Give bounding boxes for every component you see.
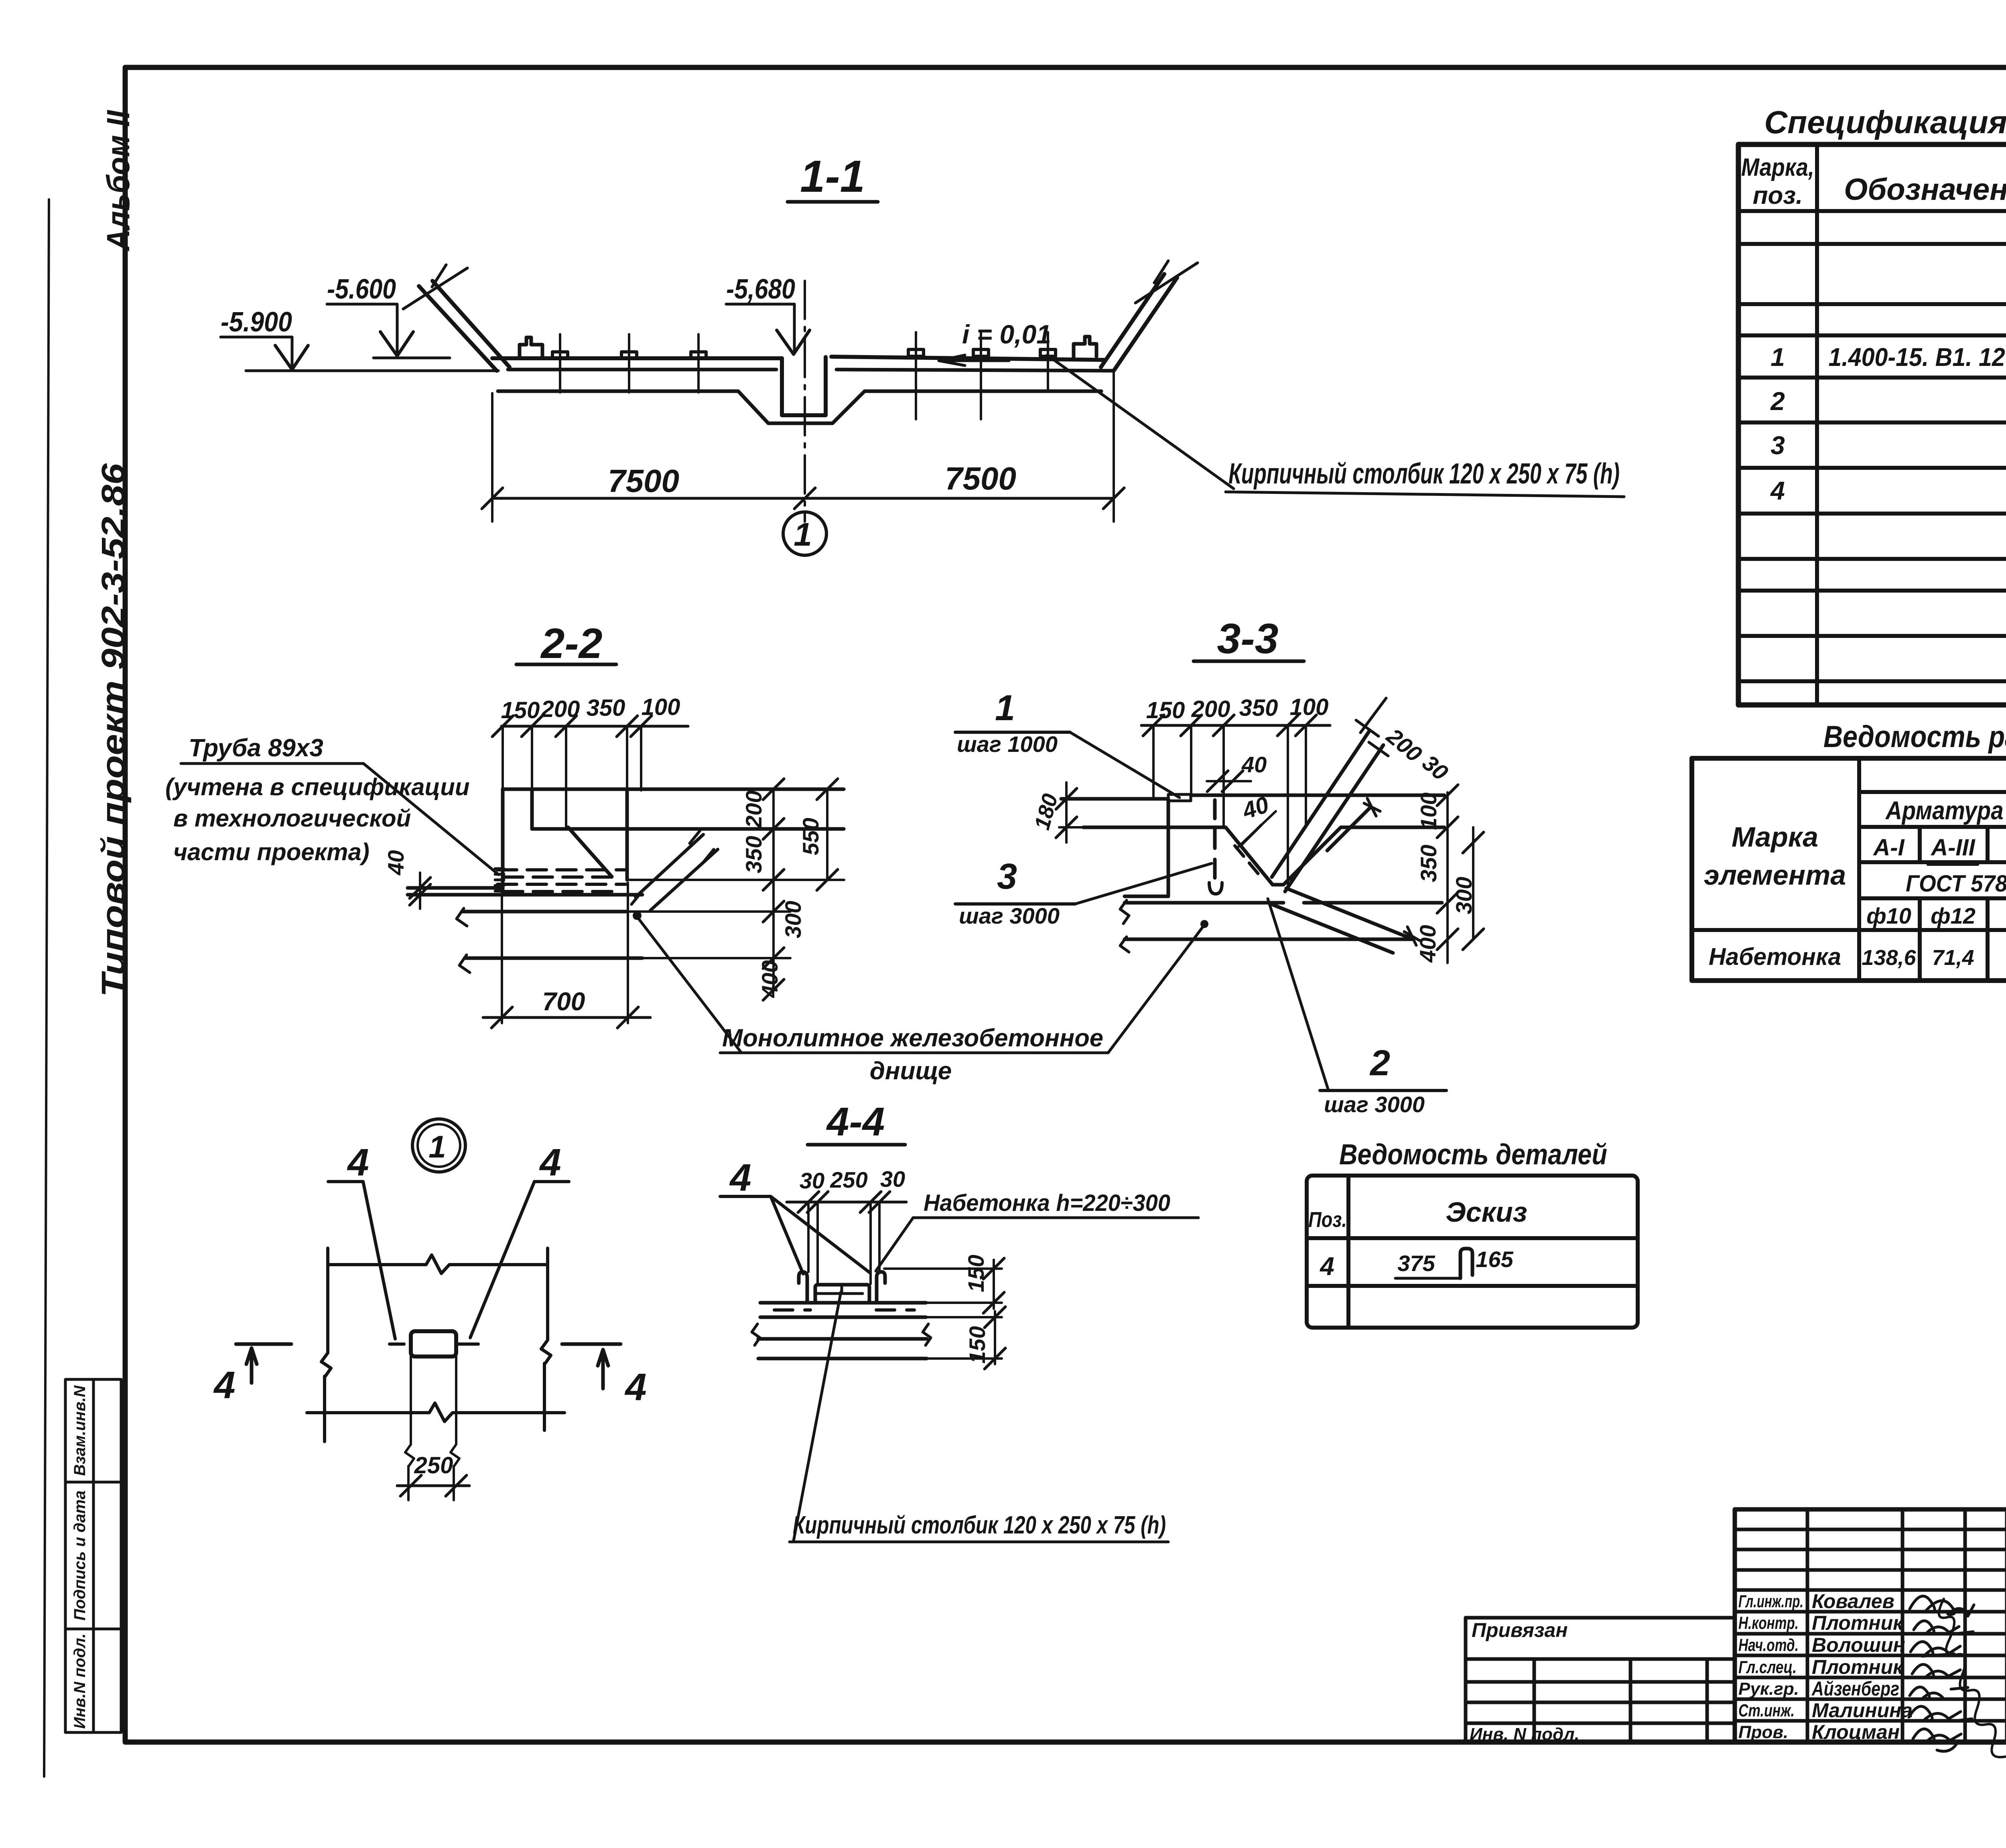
- svg-text:Эскиз: Эскиз: [1446, 1196, 1527, 1228]
- svg-text:1-1: 1-1: [800, 151, 865, 201]
- svg-text:Ведомость деталей: Ведомость деталей: [1339, 1139, 1607, 1171]
- svg-text:части проекта): части проекта): [173, 839, 370, 865]
- svg-text:100: 100: [1416, 792, 1441, 830]
- svg-text:Гл.слец.: Гл.слец.: [1738, 1657, 1797, 1677]
- svg-text:Поз.: Поз.: [1308, 1208, 1347, 1232]
- svg-text:138,6: 138,6: [1862, 946, 1916, 970]
- svg-text:Айзенберг: Айзенберг: [1811, 1677, 1899, 1700]
- svg-text:4-4: 4-4: [826, 1099, 885, 1144]
- svg-text:4: 4: [213, 1364, 235, 1407]
- svg-text:40: 40: [383, 850, 408, 875]
- svg-text:Взам.инв.N: Взам.инв.N: [71, 1385, 89, 1476]
- svg-text:(учтена в спецификации: (учтена в спецификации: [165, 774, 470, 800]
- svg-text:Спецификация к схеме располо: Спецификация к схеме расположения опор: [1764, 104, 2006, 140]
- svg-text:375: 375: [1397, 1251, 1435, 1276]
- svg-text:Пров.: Пров.: [1738, 1722, 1788, 1742]
- svg-text:4: 4: [624, 1366, 646, 1409]
- svg-text:Рук.гр.: Рук.гр.: [1738, 1679, 1799, 1699]
- svg-text:Альбом II: Альбом II: [100, 110, 136, 251]
- svg-text:ф12: ф12: [1931, 903, 1976, 928]
- svg-text:Типовой проект 902-3-52.86: Типовой проект 902-3-52.86: [95, 463, 132, 997]
- svg-text:250: 250: [830, 1167, 867, 1192]
- svg-text:2: 2: [1369, 1043, 1390, 1083]
- svg-text:4: 4: [729, 1156, 751, 1199]
- svg-text:-5.600: -5.600: [327, 273, 396, 305]
- svg-text:7500: 7500: [608, 463, 679, 499]
- svg-text:поз.: поз.: [1753, 182, 1803, 209]
- svg-text:1: 1: [995, 688, 1015, 728]
- svg-text:4: 4: [1770, 476, 1785, 505]
- svg-text:30: 30: [880, 1166, 905, 1192]
- svg-text:4: 4: [539, 1141, 561, 1184]
- svg-text:2: 2: [1770, 387, 1785, 416]
- svg-text:Монолитное железобетонное: Монолитное железобетонное: [722, 1024, 1103, 1052]
- svg-text:Набетонка h=220÷300: Набетонка h=220÷300: [924, 1190, 1170, 1216]
- svg-text:400: 400: [757, 960, 782, 998]
- svg-text:150: 150: [963, 1255, 989, 1292]
- svg-text:-5,680: -5,680: [726, 273, 795, 305]
- svg-text:4: 4: [1319, 1252, 1334, 1281]
- svg-text:4: 4: [347, 1141, 369, 1184]
- svg-text:Гл.инж.пр.: Гл.инж.пр.: [1738, 1592, 1803, 1611]
- svg-text:7500: 7500: [945, 461, 1016, 496]
- svg-text:350: 350: [741, 836, 766, 873]
- svg-text:Труба 89х3: Труба 89х3: [189, 734, 323, 762]
- svg-text:Марка: Марка: [1732, 821, 1818, 853]
- svg-text:Волошин: Волошин: [1812, 1634, 1905, 1656]
- svg-text:40: 40: [1241, 752, 1267, 777]
- svg-text:Клоцман: Клоцман: [1812, 1721, 1900, 1743]
- svg-text:350: 350: [1416, 845, 1441, 882]
- svg-text:150: 150: [501, 697, 540, 723]
- svg-text:Нач.отд.: Нач.отд.: [1738, 1635, 1799, 1655]
- svg-text:ГОСТ 5781-82 *: ГОСТ 5781-82 *: [1906, 871, 2006, 897]
- svg-text:165: 165: [1476, 1247, 1513, 1272]
- svg-text:А-III: А-III: [1930, 835, 1976, 861]
- svg-text:Обозначение: Обозначение: [1844, 173, 2006, 207]
- svg-text:3: 3: [1770, 431, 1785, 460]
- svg-text:1: 1: [794, 516, 812, 553]
- svg-text:350: 350: [1239, 695, 1278, 721]
- svg-text:шаг 1000: шаг 1000: [957, 731, 1058, 757]
- svg-text:2-2: 2-2: [540, 620, 602, 667]
- svg-text:250: 250: [414, 1452, 453, 1478]
- svg-text:Ведомость расхода стали, кг: Ведомость расхода стали, кг: [1823, 720, 2006, 754]
- svg-text:1.400-15. В1. 120- 42: 1.400-15. В1. 120- 42: [1829, 343, 2006, 372]
- svg-text:-5.900: -5.900: [221, 306, 292, 337]
- svg-text:3: 3: [997, 857, 1017, 897]
- svg-text:3-3: 3-3: [1217, 615, 1278, 662]
- svg-text:150: 150: [1146, 697, 1185, 723]
- svg-text:550: 550: [798, 818, 823, 855]
- svg-text:71,4: 71,4: [1932, 946, 1974, 970]
- svg-text:100: 100: [642, 694, 680, 720]
- svg-text:1: 1: [428, 1129, 446, 1164]
- svg-text:Н.контр.: Н.контр.: [1738, 1613, 1799, 1633]
- svg-text:Плотник: Плотник: [1812, 1612, 1904, 1634]
- svg-text:Марка,: Марка,: [1741, 154, 1814, 181]
- svg-text:А-I: А-I: [1872, 835, 1905, 861]
- svg-text:Ст.инж.: Ст.инж.: [1738, 1701, 1795, 1720]
- svg-text:i = 0,01: i = 0,01: [962, 319, 1051, 349]
- svg-text:элемента: элемента: [1704, 859, 1846, 891]
- svg-text:в технологической: в технологической: [173, 805, 411, 832]
- svg-text:300: 300: [1451, 877, 1476, 914]
- svg-text:350: 350: [587, 695, 625, 721]
- svg-text:Набетонка: Набетонка: [1709, 943, 1841, 970]
- svg-text:300: 300: [780, 901, 806, 938]
- svg-text:700: 700: [542, 987, 585, 1016]
- svg-text:1: 1: [1770, 343, 1785, 372]
- svg-text:Кирпичный столбик 120 x 250 x: Кирпичный столбик 120 x 250 x 75 (h): [793, 1511, 1166, 1539]
- svg-text:Кирпичный столбик 120 x 250 x: Кирпичный столбик 120 x 250 x 75 (h): [1228, 458, 1620, 490]
- svg-text:шаг 3000: шаг 3000: [1324, 1092, 1425, 1117]
- svg-text:400: 400: [1415, 925, 1440, 963]
- svg-text:Ковалев: Ковалев: [1812, 1590, 1894, 1612]
- svg-text:шаг 3000: шаг 3000: [959, 903, 1060, 928]
- svg-text:Подпись и дата: Подпись и дата: [71, 1491, 89, 1621]
- svg-text:150: 150: [964, 1326, 990, 1363]
- svg-text:Плотник: Плотник: [1812, 1656, 1904, 1678]
- svg-text:Инв. N подл.: Инв. N подл.: [1470, 1724, 1580, 1744]
- svg-text:Малинина: Малинина: [1812, 1699, 1913, 1722]
- svg-text:Арматура класса: Арматура класса: [1885, 796, 2006, 825]
- svg-text:200: 200: [741, 790, 766, 828]
- svg-text:Привязан: Привязан: [1472, 1619, 1568, 1641]
- svg-text:днище: днище: [870, 1057, 952, 1085]
- svg-text:30: 30: [800, 1168, 824, 1193]
- svg-text:Инв.N подл.: Инв.N подл.: [71, 1633, 89, 1729]
- svg-text:ф10: ф10: [1866, 903, 1911, 928]
